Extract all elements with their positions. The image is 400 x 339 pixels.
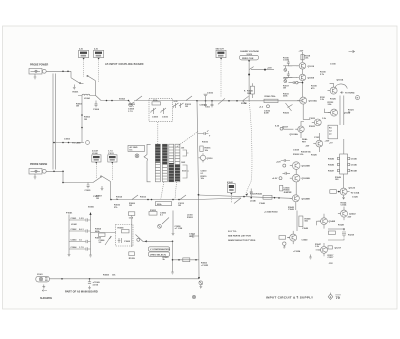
svg-text:+C 1.5M: +C 1.5M	[175, 228, 183, 230]
wire CH2 bus extension to pickoff junction	[197, 198, 241, 200]
svg-text:C1045: C1045	[351, 158, 358, 161]
wire dotted from K1002	[98, 61, 100, 83]
label C1042	[256, 192, 263, 195]
transistor Q1023	[309, 118, 321, 126]
label C1014	[200, 104, 211, 109]
wire zero check down	[248, 62, 250, 101]
junction dot	[343, 228, 345, 230]
wire pickoff to amp	[199, 195, 293, 198]
switch box TRIG SOURCE	[149, 247, 171, 257]
svg-text:N O T E :: N O T E :	[228, 231, 238, 233]
svg-text:+C1043 R1043: +C1043 R1043	[264, 210, 278, 213]
svg-text:C1049: C1049	[302, 238, 309, 241]
relay K1003	[92, 151, 101, 164]
svg-text:PROBE SENSE: PROBE SENSE	[30, 163, 48, 166]
capacitor C1019 labels	[201, 171, 208, 175]
svg-text:Q1485: Q1485	[329, 220, 336, 223]
wafer column 3	[169, 144, 174, 182]
svg-text:C1068: C1068	[124, 241, 131, 243]
wire dotted sig out	[220, 61, 222, 98]
overline 79	[335, 294, 341, 296]
svg-text:C1061: C1061	[71, 218, 78, 220]
svg-text:JUMPER: JUMPER	[284, 192, 293, 194]
svg-text:10M: 10M	[247, 93, 251, 95]
transistor Q1018	[313, 140, 330, 147]
wire left riser	[131, 216, 133, 248]
wafer column 2	[162, 144, 167, 182]
svg-text:L1006: L1006	[92, 153, 99, 155]
svg-text:1M: 1M	[84, 119, 87, 121]
svg-text:R1042: R1042	[256, 192, 263, 195]
wire dashed wafer link down 2	[175, 182, 177, 199]
junction dots on CH1 bus	[196, 100, 238, 102]
label R1128	[338, 225, 345, 227]
arrow top right	[349, 50, 355, 52]
label +6.2V node2	[259, 105, 270, 109]
junction dots	[53, 142, 69, 144]
junction dots on that wire	[81, 114, 83, 128]
resistor network R1045	[337, 154, 349, 174]
svg-text:TO LINE: TO LINE	[72, 143, 81, 145]
wire balance row	[91, 232, 117, 234]
wire Q1016A down	[300, 132, 302, 138]
wire dotted from K1001	[83, 61, 85, 78]
junction dots CH2 bus	[147, 199, 180, 201]
svg-text:C1007: C1007	[93, 196, 100, 198]
labels R1116	[283, 57, 290, 61]
svg-text:C1009: C1009	[152, 117, 159, 119]
svg-text:1M: 1M	[96, 198, 99, 200]
svg-text:C1005: C1005	[85, 190, 92, 192]
switch S1008	[129, 195, 138, 207]
svg-text:R1120: R1120	[311, 154, 318, 156]
wire Q1016A up	[301, 122, 304, 127]
svg-text:C1048: C1048	[302, 227, 309, 230]
resistor R1058 body	[128, 212, 134, 220]
wire CH1 bus to amplifier	[197, 100, 302, 102]
resistor R1059 body	[129, 252, 136, 260]
resistor R1019 labels	[201, 176, 208, 180]
labels R1045 rows left	[328, 158, 335, 173]
svg-text:R1045: R1045	[328, 158, 335, 161]
ground (P1061 right)	[89, 253, 92, 258]
wafer separators light	[155, 147, 180, 179]
svg-text:C1004: C1004	[93, 108, 100, 111]
svg-text:R1001: R1001	[73, 92, 80, 94]
svg-text:C1110: C1110	[330, 64, 337, 66]
wire feedback arc Q1014	[335, 84, 348, 89]
resistor R1005 + switch	[128, 96, 173, 108]
labels R1125 column	[320, 97, 326, 101]
wire Q1122-Q1222 link	[347, 191, 350, 193]
transistor Q1016A	[290, 126, 305, 136]
arrow marker left	[42, 290, 47, 292]
svg-text:C1040: C1040	[259, 202, 266, 205]
capacitor stub x205	[204, 101, 207, 108]
relay K1004	[108, 151, 117, 164]
wire CH2 signal bus	[111, 199, 129, 201]
svg-text:ZERO CHK: ZERO CHK	[242, 58, 254, 60]
dashed box low-freq comp	[116, 225, 134, 247]
junction dot	[110, 199, 112, 201]
component Q1217	[328, 246, 342, 250]
ground (S1002)	[101, 186, 104, 191]
svg-text:X100: X100	[182, 171, 186, 173]
node base Q1020A	[272, 177, 282, 181]
wire left riser P1061	[68, 215, 70, 253]
label R1041	[247, 90, 254, 95]
svg-text:SEE PARTS LIST FOR: SEE PARTS LIST FOR	[228, 234, 251, 237]
label R1007 1M	[96, 196, 103, 200]
junction dot	[248, 74, 250, 76]
wire bias right	[251, 69, 274, 71]
svg-text:S1005: S1005	[88, 207, 95, 209]
svg-text:S1040: S1040	[241, 102, 248, 105]
svg-text:PART OF A5 MAIN BOARD: PART OF A5 MAIN BOARD	[65, 290, 98, 294]
label L1040 C1040	[250, 200, 266, 205]
wire Q1122 down arrow	[343, 195, 345, 199]
label S1005 switch block	[128, 145, 145, 151]
switch S1002 coupling CH2	[93, 176, 111, 200]
bracket x100 contacts	[183, 165, 190, 178]
label R1016A	[202, 136, 211, 144]
wire dotted zero check to trigger pickoff	[246, 101, 252, 195]
svg-text:SJH3RG: SJH3RG	[40, 296, 53, 300]
junction dot	[172, 259, 174, 261]
label dual fet	[302, 138, 308, 143]
wire Q1018 verticals	[318, 133, 320, 152]
resistor R1046 body	[279, 236, 286, 240]
svg-text:Q1217: Q1217	[335, 248, 342, 250]
svg-text:AC GND: AC GND	[130, 146, 138, 149]
svg-text:R1065: R1065	[95, 238, 102, 240]
label C1003	[64, 138, 71, 140]
labels R1122	[328, 102, 335, 106]
label R1110	[320, 72, 327, 76]
junction dot	[172, 241, 174, 243]
label R1065	[95, 238, 102, 240]
transistor Q1014	[328, 79, 344, 95]
capacitor C1021 stub	[283, 172, 291, 175]
wire dotted K1004	[111, 164, 113, 180]
labels C1043 row	[264, 210, 278, 213]
junction dots CH1 input	[62, 71, 69, 73]
svg-text:J1061: J1061	[37, 274, 43, 276]
ground (below J1002)	[34, 174, 37, 179]
svg-text:INPUT CIRCUIT & ⅂ SUPPLY: INPUT CIRCUIT & ⅂ SUPPLY	[266, 295, 314, 299]
wire dashed wafer link up	[157, 122, 159, 144]
label C1125	[352, 196, 359, 198]
wire shielded pair down	[53, 74, 55, 170]
svg-text:1M: 1M	[76, 106, 79, 108]
switch S1007	[243, 96, 249, 104]
junction dot C1041	[250, 197, 252, 199]
resistor R1024 body	[280, 185, 291, 191]
junction dots pickoff wire	[243, 196, 280, 199]
capacitor C1052 stub	[189, 234, 199, 237]
wire riser x297	[296, 211, 298, 232]
svg-text:R1040 750k: R1040 750k	[265, 95, 277, 98]
wire Q1046 leads	[288, 231, 294, 244]
block delay line driver	[328, 125, 338, 139]
labels lower right column	[328, 255, 335, 265]
label wafer taps	[181, 148, 186, 165]
wire riser to network	[343, 139, 345, 154]
svg-text:C1063: C1063	[71, 240, 78, 242]
wire dotted K1003	[95, 164, 97, 178]
wire riser x172	[172, 241, 174, 269]
wire center bus	[197, 101, 199, 278]
label C1062b	[71, 224, 78, 226]
svg-text:C1003: C1003	[64, 138, 71, 140]
svg-text:79: 79	[336, 296, 340, 300]
capacitor stub x212	[211, 101, 214, 108]
transistor Q1020B	[290, 162, 310, 170]
labels C1018 R1018	[293, 149, 312, 153]
capacitor C1008 variable	[128, 101, 135, 113]
switch S1001 coupling	[71, 71, 96, 95]
svg-text:C1062: C1062	[71, 229, 78, 231]
node base Q1020B	[283, 164, 286, 167]
svg-text:R1016: R1016	[202, 141, 209, 143]
arrowhead	[246, 193, 249, 196]
wire Q1024 leads	[317, 214, 324, 229]
wire Q1023 link	[303, 119, 310, 121]
wire stub Q1022 base left	[325, 109, 331, 113]
note text	[228, 231, 256, 242]
wire riser	[172, 211, 174, 232]
svg-text:R1012: R1012	[140, 197, 147, 199]
svg-text:Q1040B: Q1040B	[302, 197, 311, 200]
switch box ZERO CHECK	[240, 55, 259, 62]
wire Q1020 stack	[295, 169, 297, 194]
svg-text:S1004: S1004	[119, 97, 126, 100]
capacitor C1020 stub	[281, 159, 290, 162]
svg-text:C1046: C1046	[351, 164, 358, 167]
ground (below J1001)	[34, 74, 37, 79]
capacitor C1015 stub	[204, 94, 208, 101]
switch arm	[249, 67, 254, 70]
svg-text:R1069: R1069	[103, 274, 110, 276]
svg-text:Q1010A: Q1010A	[309, 100, 318, 103]
resistor R1023 + arrow variable	[283, 103, 293, 115]
wire feedback row	[173, 259, 199, 261]
relay K1041	[227, 181, 235, 195]
svg-text:L1040: L1040	[250, 200, 257, 203]
label under S1002	[93, 196, 100, 198]
svg-text:R1048: R1048	[351, 170, 358, 173]
transistor Q1222	[338, 210, 356, 217]
capacitor C1005	[85, 183, 92, 193]
svg-text:3.3/16: 3.3/16	[93, 284, 99, 286]
wire right riser P1061	[90, 215, 92, 253]
svg-text:Q1222: Q1222	[349, 214, 356, 216]
svg-text:R1051: R1051	[187, 217, 194, 219]
svg-text:C1122: C1122	[314, 137, 321, 139]
resistor R1055 body	[149, 210, 157, 215]
label x1 bracket	[182, 171, 186, 173]
svg-text:C1064: C1064	[71, 246, 78, 249]
transistor Q1020A	[290, 174, 310, 182]
node circled H	[356, 96, 360, 100]
svg-text:+C1053: +C1053	[201, 265, 209, 267]
svg-text:Q1020B: Q1020B	[302, 178, 311, 180]
resistor R1013 + switch	[173, 96, 198, 108]
labels around Q1023	[309, 118, 327, 128]
transistor Q1024	[318, 218, 327, 225]
bracket zigzag	[144, 144, 151, 182]
resistor R1040 body	[264, 95, 278, 103]
resistor R1008 box	[156, 202, 172, 206]
resistor R1123 body	[330, 190, 337, 194]
registration mark	[192, 295, 195, 298]
capacitor row C1063	[69, 240, 91, 243]
svg-text:R1218: R1218	[348, 235, 355, 237]
labels R1020	[293, 154, 304, 156]
wire dashed wafer link down	[161, 182, 164, 199]
capacitor row C1062	[69, 229, 91, 232]
wire network down	[343, 174, 345, 188]
capacitor row C1064	[69, 246, 91, 250]
svg-text:-15V: -15V	[347, 217, 352, 219]
wire base Q1016A	[283, 127, 293, 129]
label R1003	[76, 104, 83, 108]
transistor Q1010	[297, 63, 315, 70]
svg-text:R1046: R1046	[328, 164, 335, 167]
transistor Q1009	[297, 74, 315, 81]
attenuator box 10X (dashed)	[149, 99, 173, 122]
wire Q1010-Q1009	[302, 69, 304, 74]
label C1052	[189, 234, 196, 238]
svg-text:+6.2V: +6.2V	[272, 178, 278, 180]
svg-text:PROBE POWER: PROBE POWER	[30, 64, 48, 67]
ground (P1061 left)	[68, 252, 71, 257]
label R1047b	[315, 243, 322, 248]
capacitor C1053 electrolytic	[199, 281, 203, 289]
resistor R1067 body	[183, 258, 190, 262]
relay coil K1040	[244, 83, 254, 98]
capacitor C1069 electrolytic	[88, 279, 101, 290]
label R1012	[140, 197, 147, 199]
label C1119	[311, 86, 318, 90]
labels R1017 row	[283, 85, 290, 89]
transistor Q1010A	[297, 97, 317, 104]
label see parts row	[264, 110, 271, 114]
svg-text:Q1009: Q1009	[308, 78, 315, 80]
wafer column 4	[175, 144, 180, 182]
svg-text:-15V: -15V	[329, 263, 334, 265]
transistor Q1047	[318, 247, 327, 254]
wire dotted K1041	[230, 195, 232, 203]
svg-text:-15V: -15V	[305, 145, 310, 147]
junction dots	[53, 171, 64, 173]
svg-text:TO HORIZ: TO HORIZ	[345, 92, 355, 94]
node S1012 circle	[137, 238, 140, 241]
svg-text:+12V: +12V	[276, 161, 281, 163]
svg-text:TO 0.05A: TO 0.05A	[351, 192, 360, 195]
svg-text:V COMPENSATION: V COMPENSATION	[150, 248, 170, 251]
bracket x10 contacts	[183, 150, 189, 156]
svg-text:R1023: R1023	[309, 126, 316, 128]
svg-text:R1055: R1055	[150, 210, 157, 212]
wire base Q1010	[283, 65, 297, 67]
labels R1124	[341, 201, 348, 206]
junction dots	[106, 100, 113, 102]
transistor Q1016B	[199, 153, 214, 162]
svg-text:C1018: C1018	[293, 149, 300, 151]
labels R1120	[311, 154, 318, 156]
ground circled (Q1046)	[283, 242, 286, 248]
node line trigger circle	[86, 141, 90, 145]
transistor Q1040B	[290, 195, 310, 202]
capacitor C1015b stub	[198, 130, 208, 135]
label R1220	[347, 217, 352, 219]
svg-text:R1059: R1059	[129, 258, 136, 260]
label C1017	[241, 102, 248, 105]
wire trigger row	[143, 240, 173, 242]
transistor Q1122	[338, 188, 360, 196]
svg-text:C1010: C1010	[162, 117, 169, 119]
svg-text:A5 INPUT COUPLING BOARD: A5 INPUT COUPLING BOARD	[105, 63, 144, 66]
wire CH2 bus to pickoff	[128, 199, 197, 201]
svg-text:1M: 1M	[283, 88, 286, 90]
label R1014	[116, 196, 123, 201]
wire input CH1	[46, 70, 71, 72]
capacitor C1041 stub	[250, 189, 253, 198]
labels R1060	[163, 257, 170, 261]
capacitor C1015 row	[289, 81, 304, 84]
junction dots feedback row	[178, 259, 197, 261]
svg-text:Q1016: Q1016	[207, 158, 214, 160]
transistor Q1046	[287, 234, 297, 241]
svg-text:R1128: R1128	[338, 225, 345, 227]
svg-text:P1061: P1061	[66, 213, 73, 215]
svg-text:1M: 1M	[178, 205, 181, 207]
wire +15V down	[302, 52, 304, 62]
ground (riser)	[172, 231, 175, 236]
ground (riser x172)	[171, 270, 174, 275]
svg-text:C1015: C1015	[207, 93, 214, 95]
svg-text:R1023: R1023	[283, 113, 290, 115]
arrowhead trigger row	[145, 240, 148, 242]
svg-text:L1004: L1004	[84, 97, 91, 100]
wire base Q1009	[283, 77, 297, 79]
variable arrow	[105, 236, 112, 245]
ground (coupling)	[73, 85, 76, 90]
label R1069	[103, 274, 116, 276]
label C1110	[330, 64, 337, 66]
wire Q1040B down	[295, 202, 297, 210]
junction dots bottom bus	[61, 278, 90, 280]
capacitor C1004 stub	[93, 101, 100, 111]
capacitor row C1061	[69, 218, 91, 221]
switch S1011	[162, 218, 169, 225]
labels R1043	[288, 206, 295, 211]
labels C1045 rows right	[351, 158, 358, 173]
junction dot	[338, 191, 340, 193]
resistor R1066 body	[99, 233, 106, 237]
labels R1057	[175, 226, 183, 230]
svg-text:R1068: R1068	[118, 227, 125, 229]
node switch shaft circle	[135, 154, 139, 158]
labels R1009	[283, 93, 290, 97]
resistor R1022 body	[263, 195, 272, 199]
label R1121	[348, 110, 355, 114]
wire TO LINE trigger	[53, 142, 84, 144]
arrowhead to horiz	[341, 92, 344, 94]
svg-text:SEMICONDUCTOR TYPES: SEMICONDUCTOR TYPES	[228, 240, 256, 242]
resistor R1118 body	[301, 55, 304, 60]
